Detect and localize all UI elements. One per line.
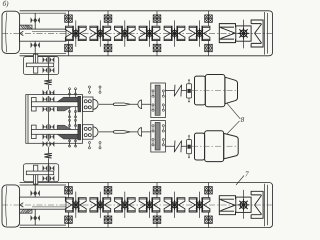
idler gear columns bbox=[70, 89, 76, 147]
unit2 feather key fork bbox=[113, 131, 130, 134]
lower spring coupling zigzag bbox=[44, 153, 52, 158]
svg-text:8: 8 bbox=[241, 116, 245, 124]
upper spring coupling zigzag bbox=[44, 80, 52, 85]
top spindle-box band bbox=[2, 11, 273, 56]
motor2 flexible link bbox=[174, 141, 181, 153]
lower transfer unit frame bbox=[23, 164, 58, 182]
unit2 bearing bowties bbox=[43, 124, 48, 130]
unit1 output shaft bbox=[99, 103, 151, 105]
lower unit bearing bowties bbox=[43, 165, 48, 171]
unit2 output shaft bbox=[99, 131, 151, 133]
motor1 shaft bbox=[165, 89, 186, 91]
unit2 output cone bbox=[93, 127, 98, 137]
unit2 cone clutch hatched bbox=[57, 134, 78, 139]
vertical drive shaft upper bbox=[47, 57, 49, 102]
motor2 safety coupling bbox=[187, 140, 192, 154]
electric motor 2 bbox=[195, 131, 239, 162]
unit2 bell coupling bbox=[138, 128, 142, 137]
electric motor 1 bbox=[195, 75, 238, 107]
bearing pair at gearbox top wall bbox=[43, 90, 48, 96]
upper transfer unit frame bbox=[23, 57, 58, 75]
unit1 cone clutch hatched bbox=[57, 97, 78, 102]
svg-text:б): б) bbox=[3, 0, 10, 8]
lower transfer unit sleeve bbox=[34, 165, 38, 184]
unit2 ball box bbox=[83, 125, 94, 140]
unit1 bar bbox=[32, 98, 37, 112]
unit1 ball box bbox=[83, 97, 94, 112]
bearing pair at gearbox bottom wall bbox=[43, 141, 48, 147]
unit1 disc bbox=[78, 96, 81, 112]
gearbox housing bbox=[26, 95, 83, 144]
vertical shaft to lower transfer unit bbox=[47, 147, 49, 182]
upper transfer unit sleeve bbox=[34, 54, 38, 73]
unit1 bell coupling bbox=[138, 100, 142, 109]
unit2 gear dumbbells bbox=[88, 142, 90, 149]
motor2 shaft bbox=[165, 145, 186, 147]
unit1 bearing bowties bbox=[43, 96, 48, 102]
motor1 safety coupling bbox=[187, 84, 192, 98]
unit1 feather key fork bbox=[113, 103, 130, 106]
motor1 flexible link bbox=[174, 85, 181, 97]
unit1 output cone bbox=[93, 99, 98, 109]
belt tower lower bbox=[151, 121, 166, 153]
unit2 bar bbox=[32, 125, 37, 139]
gearbox vertical shaft bbox=[47, 96, 49, 141]
belt tower upper bbox=[151, 83, 166, 118]
upper unit bearing bowties bbox=[43, 57, 48, 63]
bottom spindle-box band (mirrored) bbox=[2, 183, 273, 228]
unit1 gear dumbbells above bbox=[88, 86, 90, 93]
lower transfer unit bar bbox=[26, 171, 53, 175]
unit2 disc bbox=[78, 124, 81, 140]
upper transfer unit bar bbox=[26, 63, 53, 67]
svg-text:7: 7 bbox=[245, 171, 249, 179]
